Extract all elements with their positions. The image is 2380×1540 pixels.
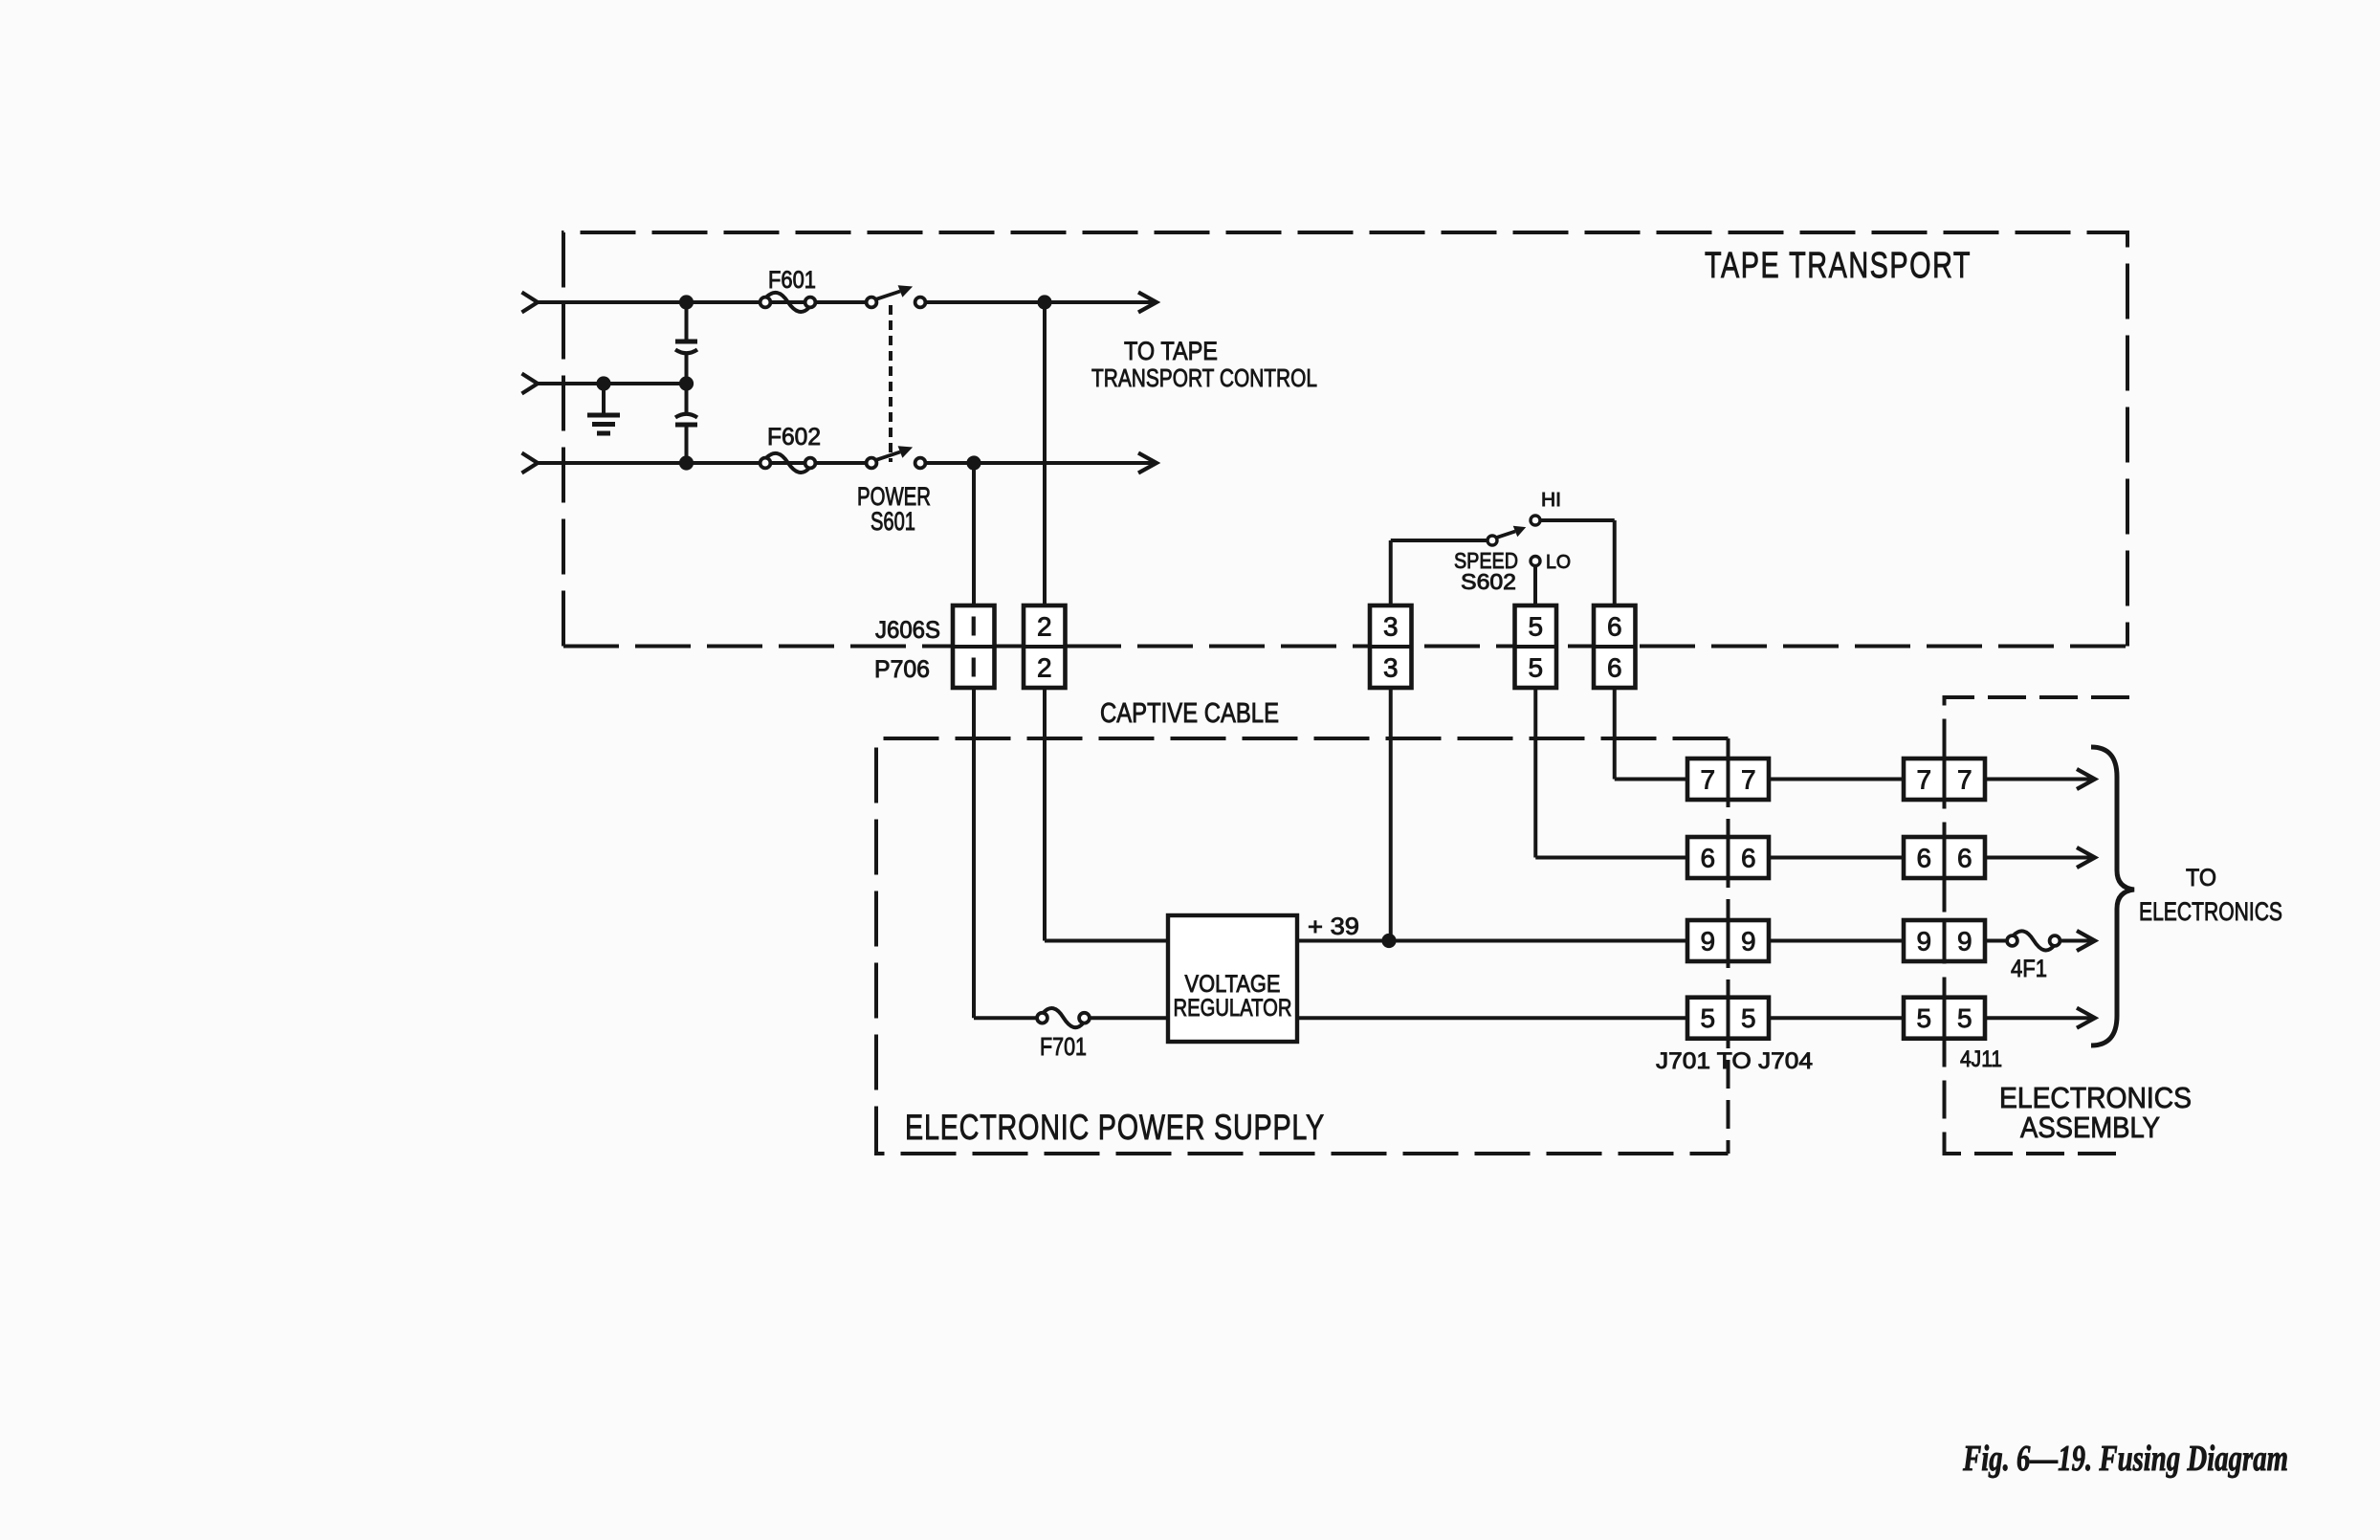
junction dot line2/ground: [596, 376, 610, 390]
junction dot line3/cap column: [679, 455, 694, 470]
connector pin 6: [1594, 605, 1636, 688]
connector 4J11 row9: [1904, 920, 1985, 961]
svg-text:REGULATOR: REGULATOR: [1174, 995, 1292, 1022]
svg-text:9: 9: [1700, 927, 1715, 957]
svg-text:2: 2: [1037, 612, 1052, 642]
switch S601 pole a: [867, 297, 877, 308]
svg-text:4F1: 4F1: [2011, 956, 2047, 982]
svg-text:6: 6: [1607, 612, 1622, 642]
svg-text:TO: TO: [2186, 865, 2216, 891]
switch S602 pole: [1487, 536, 1497, 545]
connector J606S/P706 pin 2: [1024, 605, 1066, 688]
svg-text:TO TAPE: TO TAPE: [1124, 337, 1218, 365]
svg-text:F701: F701: [1040, 1032, 1087, 1061]
connector 4J11 row7: [1904, 759, 1985, 800]
svg-text:6: 6: [1916, 844, 1931, 873]
junction dot line1/wire2: [1037, 295, 1051, 309]
connector J606S/P706 pin 1: [953, 605, 995, 688]
wire row9 mid: [1769, 939, 1904, 943]
svg-text:3: 3: [1383, 612, 1399, 642]
wire line1 left segment: [538, 300, 868, 304]
input arrow line 2: [522, 374, 539, 394]
capacitor C1 (line1-line2): [675, 340, 697, 344]
wire row5 mid: [1769, 1016, 1904, 1020]
svg-text:VOLTAGE: VOLTAGE: [1185, 971, 1281, 998]
svg-text:ELECTRONIC POWER SUPPLY: ELECTRONIC POWER SUPPLY: [905, 1108, 1325, 1147]
svg-text:ELECTRONICS: ELECTRONICS: [1999, 1081, 2192, 1114]
connector J701 row6: [1687, 837, 1769, 878]
electronic power supply enclosure (dashed box): [876, 738, 1729, 1154]
switch S601 arm a: [876, 292, 900, 299]
fuse 4F1: [1985, 939, 2007, 943]
svg-text:5: 5: [1528, 612, 1543, 642]
wire cap column upper: [685, 302, 689, 341]
svg-text:5: 5: [1957, 1003, 1972, 1033]
connector J701 row7: [1687, 759, 1769, 800]
connector pin 3: [1370, 605, 1412, 688]
wire line1 to connector 2: [1043, 302, 1047, 605]
switch S601 gang link (dashed): [889, 305, 892, 462]
wire row7 mid: [1769, 778, 1904, 781]
svg-text:ASSEMBLY: ASSEMBLY: [2020, 1111, 2160, 1144]
fuse F701: [1037, 1013, 1047, 1023]
wire line3 to connector 1: [972, 463, 976, 605]
wire connector1 to lower rail: [972, 688, 976, 1018]
wire +39 rail: [1297, 939, 1687, 943]
wire cap column middle: [685, 353, 689, 412]
wire lower rail regulator to row5: [1297, 1016, 1687, 1020]
wire line1 right segment: [927, 300, 1155, 304]
connector 4J11 row6: [1904, 837, 1985, 878]
svg-text:7: 7: [1957, 765, 1972, 795]
ground symbol: [602, 384, 606, 414]
svg-text:6: 6: [1700, 844, 1715, 873]
capacitor C2 (line2-line3): [675, 414, 697, 418]
svg-text:CAPTIVE CABLE: CAPTIVE CABLE: [1100, 698, 1279, 729]
wire connector2 to regulator input: [1043, 688, 1047, 941]
wire LO to connector 5: [1533, 566, 1537, 606]
junction dot line3/wire1: [966, 455, 981, 470]
svg-text:F601: F601: [768, 267, 816, 294]
svg-text:ELECTRONICS: ELECTRONICS: [2139, 897, 2282, 926]
tape transport enclosure (dashed box): [563, 232, 2127, 647]
junction dot +39: [1381, 934, 1396, 948]
wire line2: [538, 382, 687, 385]
switch S601 pole b: [867, 458, 877, 469]
wire row6 mid: [1769, 856, 1904, 860]
svg-text:+ 39: + 39: [1308, 913, 1359, 940]
wire cap column lower: [685, 423, 689, 463]
svg-text:2: 2: [1037, 653, 1052, 683]
junction dot line2/cap column: [679, 376, 694, 390]
input arrow line 1: [522, 293, 539, 313]
svg-text:P706: P706: [874, 656, 930, 683]
electronics assembly enclosure (dashed box): [1945, 697, 2130, 1154]
svg-text:6: 6: [1741, 844, 1756, 873]
wire line3 right segment: [927, 461, 1155, 465]
contact HI: [1531, 516, 1540, 525]
svg-text:9: 9: [1957, 927, 1972, 957]
svg-text:J606S: J606S: [875, 617, 940, 644]
svg-text:7: 7: [1916, 765, 1931, 795]
wire connector5 to row6: [1533, 688, 1537, 858]
svg-text:F602: F602: [767, 424, 821, 451]
svg-text:3: 3: [1383, 653, 1399, 683]
svg-text:Fig. 6—19. Fusing Diagram: Fig. 6—19. Fusing Diagram: [1962, 1439, 2288, 1479]
svg-text:4J11: 4J11: [1960, 1046, 2002, 1072]
wire row7 out: [1985, 778, 2093, 781]
svg-text:S602: S602: [1461, 569, 1516, 594]
fuse F601: [760, 297, 771, 308]
svg-text:5: 5: [1528, 653, 1543, 683]
connector J701 row5: [1687, 998, 1769, 1039]
svg-text:9: 9: [1916, 927, 1931, 957]
input arrow line 3: [522, 453, 539, 473]
switch S602 arm: [1497, 532, 1515, 538]
svg-text:HI: HI: [1541, 490, 1561, 511]
wire S602 pole to connector 3: [1391, 539, 1487, 542]
svg-text:S601: S601: [870, 507, 915, 536]
wire HI to connector 6: [1540, 518, 1615, 522]
svg-text:LO: LO: [1546, 552, 1571, 573]
wire F701 to regulator: [1091, 1016, 1169, 1020]
switch S601 arm b: [876, 452, 900, 460]
svg-text:7: 7: [1741, 765, 1756, 795]
svg-text:5: 5: [1916, 1003, 1931, 1033]
svg-text:7: 7: [1700, 765, 1715, 795]
wire row6 out: [1985, 856, 2093, 860]
brace to electronics: [2091, 747, 2134, 1045]
svg-text:6: 6: [1607, 653, 1622, 683]
junction dot line1/cap column: [679, 295, 694, 309]
svg-text:TRANSPORT CONTROL: TRANSPORT CONTROL: [1091, 363, 1317, 392]
svg-text:J701 TO J704: J701 TO J704: [1656, 1048, 1813, 1074]
svg-text:6: 6: [1957, 844, 1972, 873]
connector J701 row9: [1687, 920, 1769, 961]
wire row5 out: [1985, 1016, 2093, 1020]
voltage regulator box: [1168, 915, 1297, 1042]
wire connector3 to +39 node: [1389, 688, 1393, 941]
connector 4J11 row5: [1904, 998, 1985, 1039]
wire connector6 to row7: [1613, 688, 1617, 780]
wire line3 left segment: [538, 461, 868, 465]
connector pin 5: [1515, 605, 1557, 688]
svg-text:9: 9: [1741, 927, 1756, 957]
fuse F602: [760, 458, 771, 469]
contact LO: [1531, 557, 1540, 566]
svg-text:5: 5: [1741, 1003, 1756, 1033]
svg-text:TAPE TRANSPORT: TAPE TRANSPORT: [1705, 246, 1972, 286]
svg-text:5: 5: [1700, 1003, 1715, 1033]
